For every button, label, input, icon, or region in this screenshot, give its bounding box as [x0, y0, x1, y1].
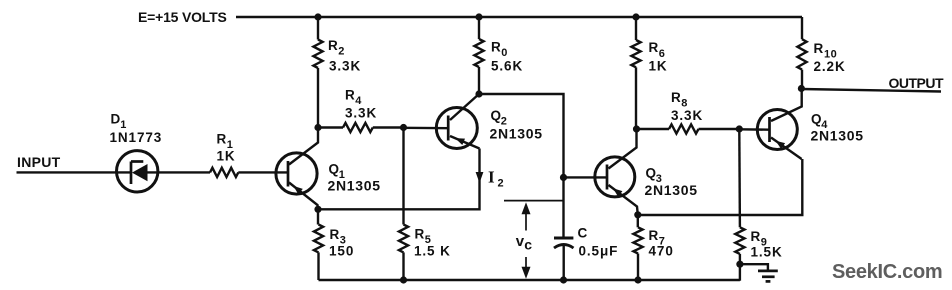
resistor R2 3.3K [313, 17, 361, 128]
svg-text:R: R [415, 227, 426, 242]
current arrow I2 [476, 168, 505, 190]
resistor R5 1.5K [399, 128, 451, 281]
svg-text:R: R [491, 40, 502, 55]
wire: Q3 base lead [564, 176, 609, 178]
wire: +15V power rail [236, 16, 802, 18]
svg-text:2N1305: 2N1305 [328, 178, 381, 194]
node: C top / Q3 base junction [560, 174, 567, 181]
svg-text:OUTPUT: OUTPUT [889, 75, 945, 91]
label vc with measurement arrows [504, 201, 563, 279]
node: Q1 emitter / R3 junction [314, 206, 321, 213]
svg-text:2.2K: 2.2K [814, 59, 846, 74]
resistor R3 150 [314, 209, 354, 280]
node: rail junction at R0 top [475, 13, 482, 20]
wire: R4 row left segment [318, 126, 343, 128]
node: junction R2/R4/Q1 collector [314, 124, 321, 131]
svg-text:3.3K: 3.3K [329, 58, 361, 73]
transistor Q4 2N1305 [757, 89, 863, 160]
svg-text:c: c [524, 237, 532, 253]
resistor R0 5.6K [474, 17, 523, 94]
wire: Q2 base lead [404, 127, 450, 130]
svg-text:INPUT: INPUT [17, 154, 61, 170]
svg-text:1N1773: 1N1773 [110, 130, 163, 145]
svg-text:I: I [488, 168, 495, 187]
resistor R1 1K [210, 132, 289, 178]
node: junction R4/R5/Q2 base [400, 124, 407, 131]
diode D1 1N1773 (tunnel diode) [110, 112, 211, 193]
svg-text:R: R [814, 41, 825, 56]
svg-text:R: R [649, 228, 660, 243]
wire: Q1/Q2 emitter row [318, 149, 480, 210]
node: Q4 collector / R10 / output junction [798, 85, 805, 92]
wire: input lead [17, 171, 132, 173]
svg-text:R: R [330, 227, 341, 242]
node: Q2 collector / R0 junction [475, 90, 482, 97]
svg-text:150: 150 [329, 244, 354, 259]
svg-text:0.5μF: 0.5μF [579, 244, 619, 259]
transistor Q3 2N1305 [595, 129, 698, 215]
svg-text:R: R [649, 40, 660, 55]
node: rail junction at R6 top [632, 13, 639, 20]
wire: node to capacitor column [479, 94, 564, 177]
node: rail junction at R2 top [314, 13, 321, 20]
node: bottom rail / R5 [400, 276, 407, 283]
node: bottom rail / C [560, 276, 567, 283]
node: bottom rail / R7 [634, 276, 641, 283]
resistor R4 3.3K [343, 88, 404, 133]
wire: bottom rail [319, 279, 740, 281]
svg-text:3.3K: 3.3K [671, 108, 703, 123]
node: R6/R8/Q3 collector junction [633, 125, 640, 132]
svg-text:1.5K: 1.5K [751, 245, 783, 260]
resistor R6 1K [631, 17, 667, 129]
resistor R8 3.3K [637, 90, 740, 134]
svg-text:R: R [751, 229, 762, 244]
svg-text:5.6K: 5.6K [491, 59, 523, 74]
svg-text:C: C [578, 226, 589, 241]
wire: Q4 base lead [739, 128, 769, 131]
node: R8/R9/Q4 base junction [736, 125, 743, 132]
svg-text:SeekIC.com: SeekIC.com [832, 261, 942, 283]
svg-text:470: 470 [649, 244, 674, 259]
svg-text:R: R [671, 90, 682, 105]
node: Q3 emitter / R7 junction [634, 211, 641, 218]
svg-text:1K: 1K [649, 58, 668, 73]
transistor Q1 2N1305 [276, 128, 381, 210]
resistor R7 470 [633, 215, 673, 280]
svg-text:R: R [217, 132, 228, 147]
svg-text:2N1305: 2N1305 [811, 128, 864, 144]
capacitor C 0.5uF [554, 177, 618, 280]
svg-text:3.3K: 3.3K [345, 106, 377, 121]
ground [740, 264, 778, 281]
wire: Q3/Q4 emitter row [638, 159, 803, 215]
wire: output lead [801, 89, 941, 92]
svg-text:2N1305: 2N1305 [490, 126, 543, 142]
svg-text:0: 0 [501, 47, 508, 59]
svg-text:1K: 1K [217, 149, 236, 164]
node: R9 bottom / ground tap [736, 261, 743, 268]
svg-text:R: R [345, 88, 356, 103]
svg-text:2: 2 [338, 46, 345, 58]
svg-text:2: 2 [498, 178, 505, 190]
svg-text:R: R [328, 38, 339, 53]
resistor R9 1.5K [735, 129, 782, 281]
svg-text:1.5 K: 1.5 K [414, 244, 451, 259]
transistor Q2 2N1305 [436, 94, 542, 149]
svg-text:E=+15 VOLTS: E=+15 VOLTS [138, 9, 227, 25]
svg-text:2N1305: 2N1305 [645, 182, 698, 198]
resistor R10 2.2K [797, 17, 845, 89]
